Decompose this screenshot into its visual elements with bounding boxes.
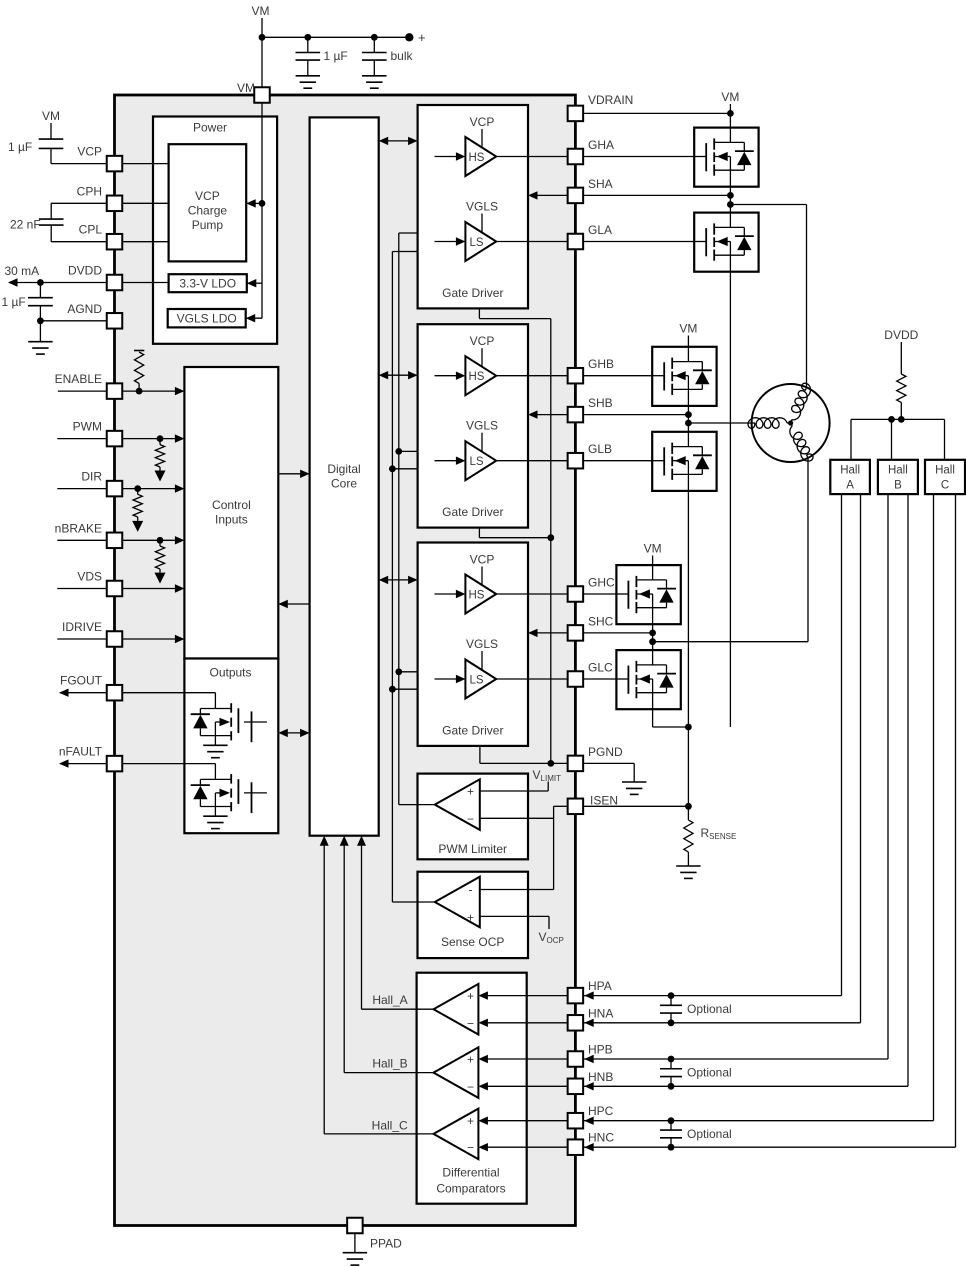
label VGLS driver B xyxy=(466,419,498,433)
pin PWM xyxy=(107,431,123,447)
wire IDRIVE xyxy=(57,635,184,643)
wire LS input C xyxy=(435,675,466,683)
label SHC xyxy=(588,614,614,628)
svg-text:Comparators: Comparators xyxy=(436,1182,505,1196)
svg-text:3.3-V LDO: 3.3-V LDO xyxy=(179,277,236,291)
wire hall B riser xyxy=(891,419,893,459)
label Hall_B xyxy=(372,1057,407,1071)
wire SHC outer xyxy=(583,632,652,634)
label DVDD xyxy=(68,264,102,278)
wire SHC inner xyxy=(528,629,583,637)
svg-text:SHC: SHC xyxy=(588,614,614,628)
label VCP driver B xyxy=(470,334,495,348)
node nBRAKE pulldown tap xyxy=(157,537,164,544)
pin GLA xyxy=(568,234,584,250)
label 1uF VCP xyxy=(8,140,32,154)
label GHB xyxy=(588,357,614,371)
svg-text:GLB: GLB xyxy=(588,442,612,456)
wire LS input A xyxy=(435,237,466,245)
node phase B junction xyxy=(685,420,692,427)
label SHB xyxy=(588,396,613,410)
label VGLS driver C xyxy=(466,637,498,651)
coil phase A xyxy=(791,383,811,423)
wire CPH outer xyxy=(51,203,106,219)
node VM B xyxy=(679,322,697,336)
svg-text:Hall_C: Hall_C xyxy=(372,1119,408,1133)
node VM rail junction 1 xyxy=(259,34,266,41)
svg-text:Hall_A: Hall_A xyxy=(372,993,407,1007)
svg-text:VGLS: VGLS xyxy=(466,637,498,651)
svg-text:PPAD: PPAD xyxy=(370,1237,402,1251)
node bus C upper xyxy=(395,668,402,675)
svg-text:nFAULT: nFAULT xyxy=(59,745,103,759)
wire PWM limiter output xyxy=(399,804,435,806)
pin DVDD xyxy=(107,275,123,291)
svg-text:+: + xyxy=(467,1114,474,1128)
svg-text:AGND: AGND xyxy=(67,302,102,316)
svg-text:SHA: SHA xyxy=(588,177,613,191)
capacitor 1uF bulk input xyxy=(296,53,321,61)
wire CPH inner xyxy=(122,202,168,204)
buffer LS C xyxy=(465,660,496,699)
label SHA xyxy=(588,177,613,191)
resistor nBRAKE pulldown xyxy=(155,540,166,583)
label Sense OCP xyxy=(441,935,504,949)
wire GHB xyxy=(496,375,664,377)
node bus B lower xyxy=(389,465,396,472)
node VM rail junction 2 xyxy=(304,34,311,41)
wire CPL outer xyxy=(51,225,106,242)
wire bus tap driverC lower xyxy=(392,688,417,690)
label PWM xyxy=(73,420,102,434)
label minus comparator A xyxy=(467,1016,474,1030)
resistor RSENSE xyxy=(684,820,693,852)
label Gate Driver C xyxy=(442,724,503,738)
wire VDRAIN xyxy=(583,112,730,114)
node VM rail junction 3 xyxy=(371,34,378,41)
wire DVDD cap stem xyxy=(39,283,41,298)
wire control to core xyxy=(278,470,309,478)
wire VM C stem xyxy=(652,556,654,566)
node VM C xyxy=(644,542,662,556)
svg-text:ISEN: ISEN xyxy=(590,793,618,807)
pin AGND xyxy=(107,313,123,329)
svg-text:A: A xyxy=(846,480,854,492)
gate driver C block xyxy=(418,543,528,746)
label LS B xyxy=(469,456,483,468)
node bus B upper xyxy=(395,448,402,455)
node VDRAIN junction xyxy=(727,110,734,117)
wire VM to pin xyxy=(261,37,263,95)
pin GHC xyxy=(568,586,584,602)
wire DVDD outer xyxy=(8,278,107,286)
pin DIR xyxy=(107,481,123,497)
transistor B low-side FET xyxy=(652,432,716,491)
block 3.3-V LDO xyxy=(169,274,247,292)
label PPAD xyxy=(370,1237,402,1251)
node VM rail end xyxy=(405,33,413,41)
label Hall_C xyxy=(372,1119,408,1133)
wire RSENSE to gnd xyxy=(687,852,689,866)
pin PPAD xyxy=(347,1218,363,1234)
label GLA xyxy=(588,223,612,237)
wire HNC outer xyxy=(583,494,955,1151)
buffer HS C xyxy=(465,575,496,614)
svg-text:22 nF: 22 nF xyxy=(10,218,41,232)
wire HA plus inner xyxy=(478,991,567,999)
wire PGND rail xyxy=(550,319,552,764)
wire GLA xyxy=(496,241,706,243)
wire ISEN outer xyxy=(583,805,688,807)
svg-text:Optional: Optional xyxy=(687,1066,732,1080)
label plus comparator A xyxy=(467,989,474,1003)
resistor ENABLE pullup xyxy=(134,351,144,392)
wire HNB outer xyxy=(583,494,908,1090)
capacitor 22nF xyxy=(39,219,64,225)
wire VM A stem xyxy=(729,104,731,128)
node DIR pulldown tap xyxy=(134,485,141,492)
svg-text:HPC: HPC xyxy=(588,1104,614,1118)
label Optional A xyxy=(687,1002,732,1016)
wire C phase mid xyxy=(652,624,654,650)
transistor C low-side FET xyxy=(616,650,680,709)
wire VM-cap stem xyxy=(50,123,52,139)
label ISEN xyxy=(590,793,618,807)
label VDS xyxy=(77,570,102,584)
svg-text:PGND: PGND xyxy=(588,745,623,759)
wire hall A riser xyxy=(850,419,852,459)
node AGND junction xyxy=(37,317,44,324)
wire source to ISEN xyxy=(687,727,689,806)
label GLB xyxy=(588,442,612,456)
label PWM Limiter xyxy=(438,842,507,856)
ground xyxy=(296,76,320,88)
label 22nF xyxy=(10,218,41,232)
label PGND xyxy=(588,745,623,759)
block Hall A xyxy=(830,460,870,494)
node hall rail B xyxy=(888,416,895,423)
svg-text:Gate Driver: Gate Driver xyxy=(442,286,503,300)
svg-text:DVDD: DVDD xyxy=(68,264,102,278)
svg-text:HPA: HPA xyxy=(588,979,612,993)
pin FGOUT xyxy=(107,685,123,701)
label nFAULT xyxy=(59,745,103,759)
wire core-driverC bus xyxy=(379,576,418,584)
resistor DIR pulldown xyxy=(132,489,143,532)
pin HNA xyxy=(568,1015,584,1031)
svg-text:+: + xyxy=(467,910,474,924)
pin VDRAIN xyxy=(568,106,584,122)
wire PWM limiter minus input xyxy=(480,817,554,819)
wire VM internal rail xyxy=(261,95,263,318)
label HNA xyxy=(588,1006,613,1020)
svg-text:−: − xyxy=(467,812,474,826)
label Optional C xyxy=(687,1127,732,1141)
svg-text:GHC: GHC xyxy=(588,576,615,590)
wire VGLS stub C xyxy=(481,651,483,670)
wire phase C to motor xyxy=(653,458,808,642)
wire VCP inner xyxy=(122,163,168,165)
svg-text:ENABLE: ENABLE xyxy=(55,372,102,386)
wire HC plus inner xyxy=(478,1117,567,1125)
wire HNA outer xyxy=(583,494,860,1027)
svg-text:Pump: Pump xyxy=(192,218,224,232)
svg-text:VCP: VCP xyxy=(195,189,220,203)
wire C source xyxy=(653,709,689,727)
svg-text:IDRIVE: IDRIVE xyxy=(62,620,102,634)
wire SHA outer xyxy=(583,194,730,196)
svg-text:SHB: SHB xyxy=(588,396,613,410)
svg-text:HS: HS xyxy=(469,371,485,383)
svg-text:Optional: Optional xyxy=(687,1127,732,1141)
pin ISEN xyxy=(568,799,584,815)
wire driverB PGND tap xyxy=(479,527,550,537)
label Control Inputs xyxy=(212,498,251,527)
svg-text:HS: HS xyxy=(469,152,485,164)
label minus comparator C xyxy=(467,1141,474,1155)
label VLIMIT xyxy=(533,768,562,783)
svg-text:GLC: GLC xyxy=(588,661,613,675)
label plus sense OCP xyxy=(467,910,474,924)
pin VCP xyxy=(107,156,123,172)
svg-text:+: + xyxy=(467,1053,474,1067)
resistor hall pullup xyxy=(897,374,906,402)
svg-text:−: − xyxy=(467,1080,474,1094)
label RSENSE xyxy=(701,826,737,841)
wire SHA inner xyxy=(528,191,583,199)
wire HS input B xyxy=(435,372,466,380)
label bulk xyxy=(391,49,414,63)
svg-text:PWM Limiter: PWM Limiter xyxy=(438,842,507,856)
label Hall A xyxy=(840,465,860,492)
wire DVDD stem xyxy=(900,342,902,374)
wire driverA PGND tap xyxy=(479,309,550,319)
svg-text:Outputs: Outputs xyxy=(209,666,251,680)
label Power xyxy=(193,121,227,135)
wire VGLS stub B xyxy=(481,433,483,452)
pin VDS xyxy=(107,581,123,597)
wire A source xyxy=(729,272,731,727)
gate driver B block xyxy=(418,324,528,527)
svg-text:B: B xyxy=(894,480,902,492)
wire B source xyxy=(687,491,689,727)
label HNB xyxy=(588,1070,613,1084)
label DIR xyxy=(81,470,102,484)
svg-text:VM: VM xyxy=(252,4,270,18)
label HS C xyxy=(469,589,485,601)
svg-text:VCP: VCP xyxy=(470,553,495,567)
label HPB xyxy=(588,1043,613,1057)
wire GLB xyxy=(496,460,664,462)
pin PGND xyxy=(568,756,584,772)
node VM charge pump tap xyxy=(259,200,266,207)
svg-text:VGLS: VGLS xyxy=(466,200,498,214)
wire nFAULT inner xyxy=(122,763,215,765)
svg-text:Sense OCP: Sense OCP xyxy=(441,935,504,949)
wire VM to VGLS LDO xyxy=(246,314,262,322)
svg-text:Charge: Charge xyxy=(188,204,228,218)
pin CPL xyxy=(107,234,123,250)
svg-text:-: - xyxy=(469,883,473,897)
pin nFAULT xyxy=(107,756,123,772)
pin HNC xyxy=(568,1139,584,1155)
svg-text:1 µF: 1 µF xyxy=(324,49,348,63)
capacitor 1uF at VCP xyxy=(39,139,64,148)
node VM supply xyxy=(252,4,270,18)
label 30 mA xyxy=(5,264,40,278)
label VCP driver A xyxy=(470,115,495,129)
coil phase C xyxy=(790,423,813,461)
svg-text:VM: VM xyxy=(42,109,60,123)
wire cap to AGND xyxy=(39,306,41,321)
svg-text:HNA: HNA xyxy=(588,1006,613,1020)
wire hall rail xyxy=(851,418,945,420)
label GHA xyxy=(588,138,614,152)
node PGND rail C xyxy=(547,760,554,767)
svg-text:+: + xyxy=(418,30,426,45)
wire ISEN to RSENSE xyxy=(687,806,689,820)
label minus sense OCP xyxy=(469,883,473,897)
wire VCP stub A xyxy=(481,129,483,148)
wire cap2 stem xyxy=(373,37,375,52)
svg-text:VCP: VCP xyxy=(77,145,102,159)
block Sense OCP xyxy=(418,872,529,958)
transistor nFAULT open-drain FET xyxy=(191,764,267,829)
svg-text:VM: VM xyxy=(721,90,739,104)
wire sense OCP plus input xyxy=(480,916,549,929)
pin HNB xyxy=(568,1079,584,1095)
label 1uF xyxy=(324,49,348,63)
svg-text:nBRAKE: nBRAKE xyxy=(55,521,102,535)
svg-text:CPL: CPL xyxy=(79,223,103,237)
node SHB junction xyxy=(685,411,692,418)
label HPC xyxy=(588,1104,614,1118)
wire AGND outer xyxy=(40,320,106,322)
label VGLS driver A xyxy=(466,200,498,214)
svg-text:+: + xyxy=(467,989,474,1003)
svg-text:Differential: Differential xyxy=(442,1166,499,1180)
wire cap2 lower stem xyxy=(373,60,375,76)
block Control Inputs xyxy=(184,367,278,659)
wire VDS xyxy=(57,584,184,592)
wire PPAD stem xyxy=(354,1233,356,1253)
wire HPB outer xyxy=(583,494,888,1063)
wire DVDD inner xyxy=(122,282,168,284)
wire sense OCP output xyxy=(392,901,434,903)
svg-text:GHA: GHA xyxy=(588,138,614,152)
pin GHB xyxy=(568,368,584,384)
pin IDRIVE xyxy=(107,631,123,647)
node PGND rail B xyxy=(547,534,554,541)
pin nBRAKE xyxy=(107,533,123,549)
ground xyxy=(622,782,646,794)
block VCP Charge Pump xyxy=(169,144,247,261)
label Digital Core xyxy=(327,462,360,491)
wire core-driverB bus xyxy=(379,371,418,379)
svg-text:Optional: Optional xyxy=(687,1002,732,1016)
svg-text:HS: HS xyxy=(469,589,485,601)
node source common xyxy=(685,724,692,731)
svg-text:GLA: GLA xyxy=(588,223,612,237)
wire GHC xyxy=(496,593,628,595)
wire core-driverA bus xyxy=(379,137,418,145)
wire nFAULT xyxy=(59,759,107,767)
label plus comparator B xyxy=(467,1053,474,1067)
wire PWM xyxy=(57,434,184,442)
buffer HS B xyxy=(465,356,496,395)
block Hall B xyxy=(878,460,918,494)
transistor A low-side FET xyxy=(694,213,758,272)
label nBRAKE xyxy=(55,521,102,535)
wire HPA outer xyxy=(583,494,841,1000)
wire HS input C xyxy=(435,590,466,598)
wire OCP bus xyxy=(392,252,417,903)
op-amp hall comparator B xyxy=(434,1047,479,1098)
svg-text:−: − xyxy=(467,1016,474,1030)
wire PGND outer xyxy=(583,763,634,782)
wire cap1 stem xyxy=(307,37,309,52)
wire HS input A xyxy=(435,152,466,160)
node VM A xyxy=(721,90,739,104)
node hall rail R xyxy=(898,416,905,423)
svg-text:VGLS: VGLS xyxy=(466,419,498,433)
svg-text:Power: Power xyxy=(193,121,227,135)
wire ISEN inner xyxy=(554,806,568,889)
wire hall C riser xyxy=(944,419,946,459)
label VOCP xyxy=(539,930,564,945)
wire AGND gnd stem xyxy=(39,321,41,342)
wire PWM limiter plus input xyxy=(480,782,548,792)
svg-text:Control: Control xyxy=(212,498,251,512)
svg-text:+: + xyxy=(467,785,474,799)
wire A phase mid xyxy=(729,187,731,213)
wire phase A to motor xyxy=(730,205,806,388)
wire resistor to rail xyxy=(900,402,902,419)
node phase A junction xyxy=(727,201,734,208)
svg-text:Digital: Digital xyxy=(327,462,360,476)
label GHC xyxy=(588,576,615,590)
block VGLS LDO xyxy=(168,309,246,327)
pin GHA xyxy=(568,149,584,165)
label Optional B xyxy=(687,1066,732,1080)
ground xyxy=(343,1253,367,1265)
svg-text:DIR: DIR xyxy=(81,470,102,484)
node ISEN junction xyxy=(685,803,692,810)
ground xyxy=(676,866,700,878)
svg-text:HPB: HPB xyxy=(588,1043,613,1057)
label Differential Comparators xyxy=(436,1166,505,1196)
transistor A high-side FET xyxy=(694,128,758,187)
label Hall_A xyxy=(372,993,407,1007)
wire nBRAKE xyxy=(57,536,184,544)
label GLC xyxy=(588,661,613,675)
node VM at VCP cap xyxy=(42,109,60,123)
pin GLB xyxy=(568,453,584,469)
label VCP Charge Pump xyxy=(188,189,228,232)
wire core to control xyxy=(278,600,309,608)
label Outputs xyxy=(209,666,251,680)
op-amp sense OCP comparator xyxy=(435,877,480,928)
svg-text:−: − xyxy=(467,1141,474,1155)
wire SHB outer xyxy=(583,414,688,416)
transistor C high-side FET xyxy=(616,565,680,624)
label LS C xyxy=(469,674,483,686)
svg-text:RSENSE: RSENSE xyxy=(701,826,737,841)
svg-text:VM: VM xyxy=(644,542,662,556)
svg-text:Hall: Hall xyxy=(935,465,955,477)
wire FGOUT inner xyxy=(122,692,215,694)
svg-text:GHB: GHB xyxy=(588,357,614,371)
